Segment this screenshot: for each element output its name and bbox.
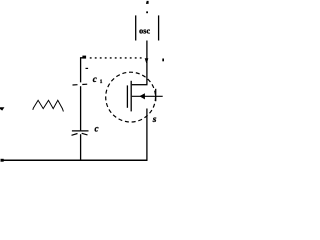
svg-text:c: c	[93, 74, 97, 84]
svg-text:c: c	[95, 123, 99, 133]
svg-text:1: 1	[100, 79, 103, 85]
svg-text:osc: osc	[139, 27, 150, 36]
svg-text:s: s	[152, 115, 157, 125]
